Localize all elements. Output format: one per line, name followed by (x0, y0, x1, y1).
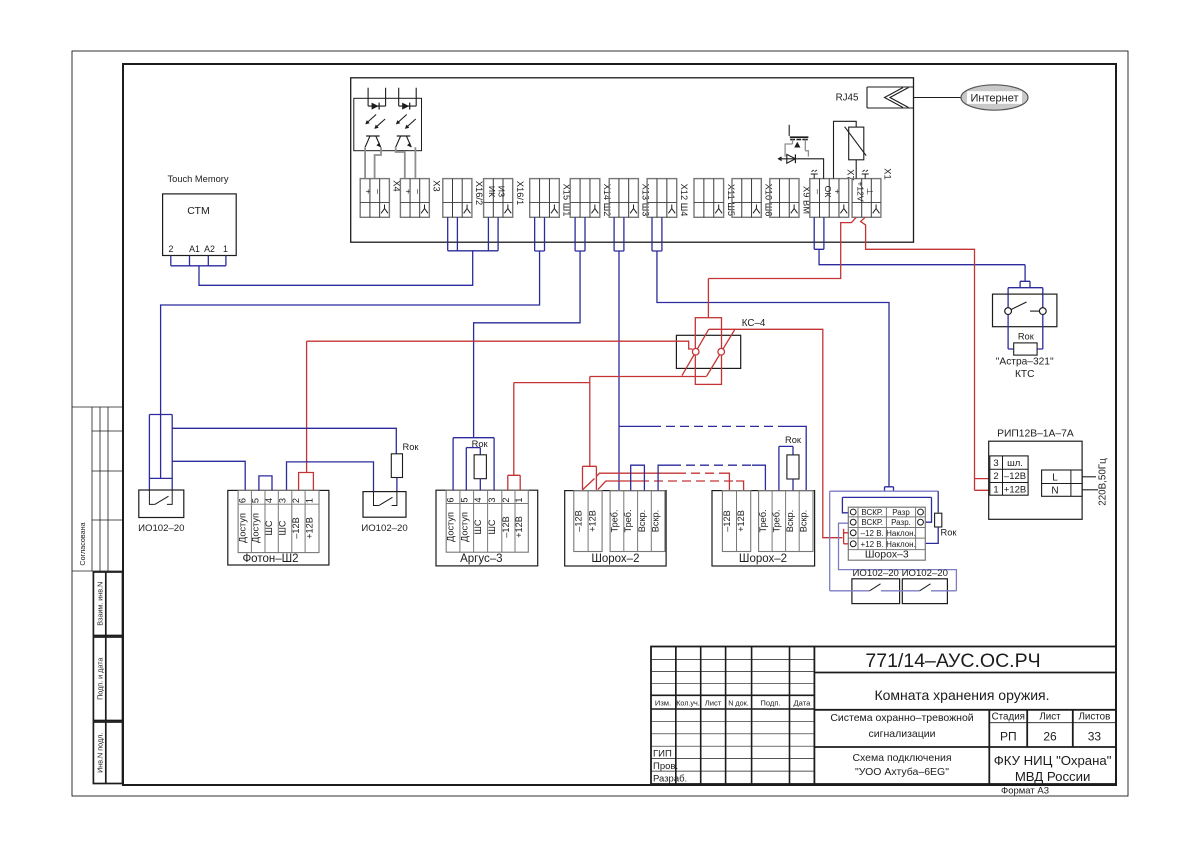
wire red chain to Шорох-2 no.2 -12В (596, 473, 729, 490)
wire Фотон power bracket (299, 473, 314, 491)
wire +12V from X1 to КС-4 bus (708, 217, 856, 278)
svg-text:А2: А2 (204, 244, 215, 254)
svg-text:771/14–АУС.ОС.РЧ: 771/14–АУС.ОС.РЧ (865, 650, 1040, 672)
terminal block X7 (810, 179, 849, 218)
wire 220V N (1082, 489, 1098, 491)
wire Фотон ШС3 to right ИО102-20 (287, 462, 374, 492)
svg-text:ВСКР.: ВСКР. (861, 518, 883, 527)
power supply РИП12В-1А-7А (989, 429, 1082, 520)
svg-text:Схема подключения: Схема подключения (852, 752, 951, 764)
svg-text:Пров.: Пров. (653, 761, 678, 772)
svg-text:X16/1: X16/1 (515, 181, 525, 205)
connector RJ45 (836, 87, 914, 108)
svg-text:+12В: +12В (305, 517, 315, 539)
svg-text:КТС: КТС (1015, 369, 1035, 380)
svg-text:+12В: +12В (1004, 484, 1026, 495)
svg-text:Вскр.: Вскр. (785, 510, 795, 532)
wire СТМ pins bus (171, 256, 226, 266)
device Фотон-Ш2 (228, 490, 329, 565)
svg-text:ШС: ШС (473, 519, 483, 534)
contact ИО102-20 (left) (138, 490, 184, 534)
svg-text:1: 1 (223, 244, 228, 254)
svg-text:–12В: –12В (573, 510, 583, 531)
svg-text:СТМ: СТМ (187, 205, 209, 217)
ground symbol above X1 pin ⊥ (862, 170, 869, 179)
wire jumper Фотон 5-4 (259, 476, 272, 491)
svg-text:X11 Ш5: X11 Ш5 (726, 184, 736, 216)
svg-text:Rок: Rок (1018, 332, 1035, 342)
terminal block X13 Ш3 (609, 179, 650, 218)
svg-text:ИО102–20: ИО102–20 (902, 568, 948, 579)
svg-text:+: + (364, 189, 374, 194)
svg-text:Лист: Лист (1039, 712, 1061, 723)
button Астра-321 КТС (993, 265, 1057, 349)
svg-text:Подп.: Подп. (760, 699, 780, 708)
svg-text:220В,50Гц: 220В,50Гц (1098, 458, 1109, 506)
svg-text:Лист: Лист (705, 699, 722, 708)
panel U1 УОО Ахтуба-6EG enclosure (351, 78, 914, 242)
svg-text:Дата: Дата (793, 699, 811, 708)
terminal block X1 (852, 179, 881, 218)
svg-text:Треб.: Треб. (609, 509, 619, 532)
svg-text:Вскр.: Вскр. (651, 510, 661, 532)
wire КС-4 bottom to Аргус/Шорох-2 power (590, 376, 707, 378)
wire Q1/VD1 rail to X7 ОК (778, 159, 823, 179)
terminal block X12 Ш4 (647, 179, 689, 218)
svg-text:Согласована: Согласована (78, 522, 87, 565)
varistor RU1 (845, 127, 867, 160)
resistor Rок (Астра) (996, 332, 1054, 381)
terminal block X16/1 (484, 179, 525, 218)
diode VD1 (778, 154, 795, 163)
svg-text:X12 Ш4: X12 Ш4 (679, 184, 689, 217)
svg-text:Треб.: Треб. (758, 509, 768, 532)
svg-text:X13 Ш3: X13 Ш3 (641, 184, 651, 217)
wire ВМ: X7 -/ОК to Астра-321 (814, 217, 1025, 264)
wire varistor loop to X7 + and X1 +12V (834, 121, 857, 178)
resistor Rок (left loop) (391, 442, 419, 492)
svg-text:+12В: +12В (588, 510, 598, 532)
wire red bracket into Шорох-3 rows 3-4 (844, 529, 849, 544)
terminal block X16/2 (443, 179, 484, 218)
svg-text:L: L (1052, 472, 1058, 483)
contact ИО102-20 (Шорох-3 no.1) (852, 568, 900, 604)
wire ШС1 junction jogs near ИО102-20 (149, 415, 396, 491)
svg-text:Комната хранения оружия.: Комната хранения оружия. (874, 687, 1049, 703)
contact ИО102-20 (Шорох-3 no.2) (902, 568, 948, 604)
wire opto2 to X3 (396, 147, 405, 178)
wire tamper loop through ИО102-20 pair (830, 584, 957, 591)
svg-text:X14 Ш2: X14 Ш2 (602, 184, 612, 217)
svg-text:Наклон.: Наклон. (886, 540, 916, 549)
svg-text:–12В: –12В (1004, 471, 1026, 482)
device Аргус-3 (436, 490, 538, 566)
svg-text:Вскр.: Вскр. (637, 510, 647, 532)
contact ИО102-20 (right) (361, 492, 407, 534)
svg-text:5: 5 (459, 497, 469, 502)
svg-text:4: 4 (264, 498, 274, 503)
svg-text:33: 33 (1088, 730, 1102, 744)
wire loop Ш1: X15 to left devices (161, 217, 545, 478)
resistor Rок (Аргус) (472, 439, 489, 490)
wire КС-4 to Шорох-3 power (709, 329, 843, 537)
svg-text:2: 2 (169, 244, 174, 254)
svg-text:6: 6 (237, 498, 247, 503)
svg-text:+12V: +12V (855, 181, 865, 202)
svg-text:–: – (813, 189, 823, 194)
wire loop Ш3: X13 to Шорох-2 no.1 (614, 217, 624, 490)
svg-text:+: + (833, 189, 843, 194)
optocoupler U2.1 (IR receiver) (365, 88, 386, 148)
svg-text:Доступ: Доступ (459, 512, 469, 542)
svg-text:Rок: Rок (403, 442, 420, 452)
svg-text:Разр.: Разр. (891, 518, 911, 527)
wire dashed Вскр chain no.1 to no.2 Треб (658, 465, 765, 490)
svg-text:ИО102–20: ИО102–20 (853, 568, 899, 579)
svg-text:Rок: Rок (941, 528, 958, 538)
svg-text:Шорох–3: Шорох–3 (865, 549, 909, 561)
terminal block X14 Ш2 (570, 179, 612, 218)
svg-text:ИК: ИК (487, 186, 497, 197)
svg-text:Доступ: Доступ (446, 512, 456, 542)
svg-text:X16/2: X16/2 (474, 181, 484, 205)
device Шорох-3 (table) (848, 507, 925, 560)
svg-text:Система охранно–тревожной: Система охранно–тревожной (830, 712, 973, 724)
svg-text:РИП12В–1А–7А: РИП12В–1А–7А (997, 429, 1074, 440)
svg-text:ИО102–20: ИО102–20 (361, 523, 407, 534)
wire loop Ш4: X12 to Шорох-3 (652, 217, 889, 487)
svg-text:–: – (373, 189, 383, 194)
wire dashed Ш3 branch to Шорох-2 no.2 Вскр (619, 426, 806, 490)
svg-text:ИО102–20: ИО102–20 (138, 523, 184, 534)
svg-text:РП: РП (1000, 730, 1017, 744)
terminal block X15 Ш1 (530, 179, 572, 218)
svg-text:2: 2 (291, 498, 301, 503)
svg-text:3: 3 (487, 497, 497, 502)
svg-text:+12В: +12В (514, 516, 524, 538)
svg-text:Шорох–2: Шорох–2 (739, 553, 787, 565)
svg-text:"Астра–321": "Астра–321" (996, 357, 1054, 368)
svg-text:2: 2 (501, 497, 511, 502)
terminal block X9 ВМ (770, 179, 811, 218)
svg-text:Треб.: Треб. (623, 509, 633, 532)
wire Аргус ШС brackets (453, 438, 494, 491)
svg-text:ГИП: ГИП (653, 748, 672, 759)
svg-text:2: 2 (993, 471, 998, 482)
svg-text:Шорох–2: Шорох–2 (591, 553, 639, 565)
svg-text:Доступ: Доступ (237, 513, 247, 543)
svg-text:Изм.: Изм. (655, 699, 671, 708)
svg-text:Touch Memory: Touch Memory (168, 174, 229, 184)
svg-text:ВСКР.: ВСКР. (861, 508, 883, 517)
svg-text:ШС: ШС (264, 520, 274, 535)
svg-text:+12 В.: +12 В. (861, 540, 884, 549)
svg-text:+: + (404, 189, 414, 194)
svg-text:Подп. и дата: Подп. и дата (95, 658, 104, 700)
svg-text:Кол.уч.: Кол.уч. (676, 699, 700, 708)
svg-text:КС–4: КС–4 (742, 318, 766, 329)
svg-text:X10 Ш6: X10 Ш6 (764, 184, 774, 217)
svg-text:5: 5 (251, 498, 261, 503)
wire ТМ: СТМ to X16 bus (199, 217, 498, 285)
resistor Rок (Шорох-3) (925, 491, 957, 543)
wire power to Аргус-3 (514, 382, 590, 384)
svg-text:Треб.: Треб. (771, 509, 781, 532)
svg-text:шл.: шл. (1007, 458, 1023, 469)
svg-text:–12В: –12В (722, 510, 732, 531)
svg-text:МВД России: МВД России (1015, 769, 1091, 784)
svg-text:ФКУ НИЦ "Охрана": ФКУ НИЦ "Охрана" (994, 753, 1112, 768)
resistor Rок (Шорох-2 no.2) (779, 435, 802, 491)
terminal block X11 Ш5 (694, 179, 736, 218)
svg-text:Инв.N подл.: Инв.N подл. (95, 733, 104, 773)
svg-text:1: 1 (305, 498, 315, 503)
svg-text:3: 3 (278, 498, 288, 503)
svg-text:Наклон.: Наклон. (886, 529, 916, 538)
svg-text:Листов: Листов (1078, 712, 1110, 723)
svg-text:Взаим. инв.N: Взаим. инв.N (95, 582, 104, 626)
svg-text:Стадия: Стадия (992, 712, 1025, 723)
svg-text:–: – (413, 189, 423, 194)
svg-text:сигнализации: сигнализации (869, 728, 936, 740)
svg-text:1: 1 (993, 484, 998, 495)
svg-text:X3: X3 (432, 180, 442, 191)
svg-text:N док.: N док. (728, 699, 749, 708)
wire loop Ш2: X14 to Аргус-3 (474, 217, 585, 437)
svg-text:Разраб.: Разраб. (653, 773, 687, 784)
svg-text:Вскр.: Вскр. (799, 510, 809, 532)
switch box КС-4 (tamper chain) (676, 279, 766, 385)
optocoupler U2.2 (IR receiver) (396, 88, 417, 148)
svg-text:4: 4 (473, 497, 483, 502)
svg-text:Доступ: Доступ (251, 513, 261, 543)
svg-text:+12В: +12В (736, 510, 746, 532)
svg-text:ШС: ШС (278, 520, 288, 535)
transistor Q1 (MOSFET) (785, 125, 808, 157)
device Шорох-2 no.2 (712, 491, 815, 566)
svg-text:ШС: ШС (487, 519, 497, 534)
device Шорох-2 no.1 (565, 491, 666, 566)
svg-text:6: 6 (446, 497, 456, 502)
svg-text:26: 26 (1043, 730, 1057, 744)
wire 220V L (1082, 476, 1096, 478)
svg-text:X1: X1 (882, 168, 892, 179)
svg-text:–12В: –12В (291, 517, 301, 538)
wire red chain to Шорох-2 no.2 +12В (598, 481, 744, 491)
svg-text:N: N (1051, 486, 1058, 497)
wire power to Фотон-Ш2 (307, 341, 693, 349)
svg-text:Аргус–3: Аргус–3 (460, 553, 502, 565)
svg-text:RJ45: RJ45 (836, 93, 859, 104)
wire Аргус power bracket (508, 475, 520, 490)
svg-text:Rок: Rок (472, 439, 489, 449)
svg-text:⊥: ⊥ (865, 188, 875, 196)
svg-text:Rок: Rок (785, 435, 802, 445)
svg-text:А1: А1 (189, 244, 200, 254)
terminal block X4 (360, 179, 401, 218)
svg-text:"УОО Ахтуба–6ЕG": "УОО Ахтуба–6ЕG" (855, 766, 949, 778)
optocoupler module box (354, 98, 422, 150)
ground symbol above X7 pin - (811, 170, 818, 179)
wire opto1 to X4 (364, 147, 366, 178)
svg-text:3: 3 (993, 458, 998, 469)
svg-text:Интернет: Интернет (971, 92, 1019, 104)
svg-text:Разр: Разр (892, 508, 910, 517)
svg-text:1: 1 (514, 497, 524, 502)
svg-text:ИЗ: ИЗ (497, 186, 507, 197)
terminal block X10 Ш6 (732, 179, 774, 218)
node Интернет (914, 85, 1029, 110)
svg-text:–12 В.: –12 В. (861, 529, 884, 538)
svg-text:Формат А3: Формат А3 (1001, 786, 1049, 797)
wire -12V from X1 to РИП (861, 217, 990, 490)
terminal block X3 (400, 179, 441, 218)
svg-text:–12В: –12В (501, 516, 511, 537)
svg-text:Фотон–Ш2: Фотон–Ш2 (242, 553, 298, 565)
wire Ш4 jog and brackets to Шорох-3 (830, 487, 957, 591)
svg-text:ОК: ОК (823, 186, 833, 198)
wire Шорох-2 no.1 power bracket (slanted) (583, 466, 597, 490)
wire jumper Шорох-2 no.1 Треб-Вскр (631, 465, 645, 490)
reader СТМ (Touch Memory) (163, 174, 237, 256)
